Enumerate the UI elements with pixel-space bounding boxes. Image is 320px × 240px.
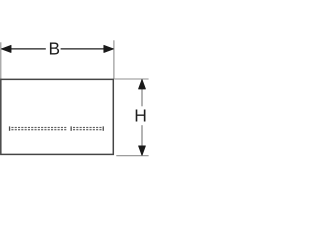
perforation strip middle bar xyxy=(71,126,72,130)
extension line bottom (H) xyxy=(116,155,148,157)
dimension line H xyxy=(141,79,143,106)
svg-text:B: B xyxy=(49,39,61,59)
arrow H bottom xyxy=(139,146,146,155)
perforation strip end bar xyxy=(103,126,104,130)
perforation strip start bar xyxy=(9,126,10,130)
extension line left (B) xyxy=(0,42,2,79)
extension line right (B) xyxy=(113,40,115,79)
perforation strip left dashes row 1 xyxy=(11,127,66,130)
arrow H top xyxy=(139,80,146,89)
panel xyxy=(1,79,114,154)
svg-text:H: H xyxy=(134,106,147,126)
arrow B left xyxy=(2,45,11,52)
extension line top (H) xyxy=(114,78,148,80)
perforation strip right dashes xyxy=(73,127,102,130)
arrow B right xyxy=(104,45,113,52)
dimension line B xyxy=(1,48,45,50)
